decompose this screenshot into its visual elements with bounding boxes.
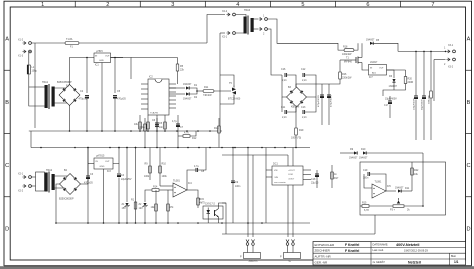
wire T1 drain up	[361, 43, 363, 53]
svg-text:1N4007: 1N4007	[183, 83, 192, 86]
svg-text:B: B	[467, 100, 471, 106]
svg-text:X3-2: X3-2	[448, 66, 454, 69]
capacitor C15 470uF/400V	[327, 95, 331, 98]
svg-text:12V: 12V	[139, 207, 144, 210]
wire C6	[156, 115, 158, 131]
wire rail down x416	[415, 51, 417, 96]
junction bus x135	[135, 147, 137, 149]
svg-text:4,7k: 4,7k	[184, 132, 189, 135]
svg-text:2,2n: 2,2n	[282, 116, 287, 119]
junction busC x199	[198, 147, 200, 149]
svg-text:100k: 100k	[162, 175, 168, 178]
svg-text:7: 7	[431, 2, 434, 8]
junction gnd rail x140	[139, 130, 141, 132]
svg-text:1N4007: 1N4007	[359, 157, 368, 160]
connector X6-1	[18, 173, 31, 179]
wire T1 source down	[362, 66, 369, 70]
capacitor C11 2.2n	[281, 106, 287, 119]
potentiometer P2	[240, 240, 261, 264]
op-amp IC4 TL081	[173, 180, 192, 198]
capacitor C4 2.2uF	[117, 174, 132, 181]
wire rail down x431	[430, 51, 432, 91]
IC2 left pin 3	[141, 93, 148, 95]
resistor R9 100k	[144, 163, 151, 179]
diode D9 1N4007	[349, 148, 358, 160]
junction P3 right	[422, 205, 424, 207]
capacitor C20 100uF/400V	[414, 96, 418, 99]
wire to R11	[197, 90, 203, 92]
long vertical TRA3 primary return	[219, 33, 221, 131]
svg-text:100k: 100k	[144, 175, 150, 178]
svg-text:LM317: LM317	[370, 61, 378, 64]
svg-text:GND: GND	[100, 166, 105, 168]
svg-text:2: 2	[106, 2, 109, 8]
junction gnd rail x210	[209, 130, 211, 132]
resistor R1 10k	[131, 199, 137, 210]
bridge rectifier B1 B250C850DP	[57, 81, 80, 106]
wire R2	[155, 190, 157, 223]
svg-text:OUT: OUT	[379, 68, 384, 70]
svg-text:Last mod.: Last mod.	[373, 248, 385, 252]
wire C5 bottom	[114, 99, 116, 132]
svg-text:1N4007: 1N4007	[366, 39, 375, 42]
svg-text:R10: R10	[162, 163, 167, 166]
svg-text:2,2n: 2,2n	[302, 116, 307, 119]
svg-text:C13: C13	[301, 106, 306, 109]
wire bus C from left	[31, 147, 310, 149]
junction bus x233	[232, 147, 234, 149]
svg-text:470µ/35: 470µ/35	[117, 98, 126, 101]
svg-text:COM: COM	[288, 174, 293, 176]
wire B3 right arm	[306, 88, 316, 97]
wire opto box link	[222, 203, 226, 234]
svg-text:VIN: VIN	[274, 170, 278, 172]
wire rail down x424	[423, 51, 425, 96]
svg-text:TL081: TL081	[173, 180, 180, 183]
connector X1-3	[18, 50, 31, 58]
svg-text:C16: C16	[281, 68, 286, 71]
wire B1 plus up to IC1	[70, 58, 95, 85]
wire z2 col	[126, 148, 128, 203]
wire triac bottom	[220, 97, 234, 105]
wire C18 col	[316, 170, 318, 188]
wire D10 right	[367, 152, 424, 154]
IC2 right pin 2	[169, 87, 176, 89]
wire opamp out	[187, 189, 196, 191]
diode D2 1N4007	[183, 92, 198, 100]
svg-text:470µ/35: 470µ/35	[84, 182, 93, 185]
wire C19 right	[370, 174, 386, 191]
junction rail x431	[430, 51, 432, 53]
IC2 left pin 5	[141, 103, 148, 105]
svg-text:R18: R18	[343, 45, 348, 48]
junction busC x75	[74, 147, 76, 149]
svg-text:X2-1: X2-1	[222, 36, 228, 39]
wire C17 down	[389, 105, 391, 113]
svg-text:3: 3	[171, 2, 174, 8]
wire Z2 down	[144, 207, 146, 223]
svg-text:TRA2: TRA2	[46, 169, 53, 172]
resistor R3 47k	[167, 204, 174, 211]
svg-text:4: 4	[236, 2, 239, 8]
svg-text:15µF/400V: 15µF/400V	[385, 98, 397, 101]
svg-text:45WV2.5: 45WV2.5	[249, 261, 259, 263]
svg-text:1N4007: 1N4007	[183, 98, 192, 101]
capacitor C18 22u/25	[311, 174, 319, 185]
wire fuse to TRA3 branch	[79, 42, 207, 44]
svg-text:X2-2: X2-2	[222, 10, 228, 13]
wire R17 col	[331, 165, 333, 188]
wire R19 bottom	[295, 135, 297, 148]
resistor R16 220k/2W	[339, 72, 352, 80]
svg-text:2,2n: 2,2n	[302, 79, 307, 82]
svg-text:100µF/400V: 100µF/400V	[414, 97, 416, 110]
wire lm317 to r20	[387, 69, 406, 71]
junction gnd rail x165	[164, 130, 166, 132]
junction busC x222	[221, 147, 223, 149]
resistor R18 100k/2W	[342, 45, 354, 56]
junction rail x416	[415, 51, 417, 53]
wire X2-2 to TRA3	[236, 15, 246, 17]
junction gnd2 x135.5	[135, 222, 137, 224]
ground rail section C	[56, 222, 310, 224]
svg-text:100µ: 100µ	[32, 70, 38, 73]
svg-text:X2-1: X2-1	[18, 173, 24, 176]
junction gnd2 x127	[126, 222, 128, 224]
svg-text:22µF/25V: 22µF/25V	[121, 178, 132, 181]
resistor R2 10k	[151, 204, 158, 211]
ground rail section B	[29, 130, 222, 132]
svg-text:240R: 240R	[408, 81, 414, 84]
junction busC x135.5	[135, 147, 137, 149]
svg-text:15V: 15V	[122, 207, 127, 210]
IC2 left pin 6	[141, 108, 148, 110]
wire opto emitter down	[218, 217, 220, 223]
svg-text:X1-2: X1-2	[18, 39, 24, 42]
IC2 right pin 6	[169, 103, 176, 105]
fuse F1 T1.8A	[65, 38, 79, 48]
svg-text:1N4007: 1N4007	[349, 157, 358, 160]
junction gnd2 x222	[221, 222, 223, 224]
wire TRA3 sec bot	[254, 28, 259, 30]
svg-text:R14: R14	[153, 186, 158, 189]
wire R14 left	[145, 190, 152, 202]
svg-text:C12: C12	[301, 68, 306, 71]
wire C2 top	[86, 58, 88, 94]
svg-text:100n: 100n	[235, 185, 241, 188]
svg-text:R12: R12	[192, 137, 197, 140]
wire into B3 top	[271, 60, 282, 75]
zener Z2 12V	[139, 203, 148, 210]
wire R5 top	[177, 58, 179, 65]
capacitor C19 100n	[363, 169, 370, 180]
wire R1 col	[135, 148, 137, 224]
wire R18 left	[335, 43, 344, 50]
svg-text:22µ/25: 22µ/25	[311, 182, 319, 185]
wire DC1 out com	[303, 174, 311, 176]
junction gnd rail x115	[114, 130, 116, 132]
junction diode join	[196, 90, 198, 92]
wire R8	[144, 118, 146, 148]
svg-text:400V-Netzteil: 400V-Netzteil	[396, 243, 419, 247]
wire C8 loop	[187, 170, 196, 190]
wire IC3 out	[113, 164, 119, 174]
op-amp IC5 TL081	[372, 181, 391, 199]
wire cap down x416	[415, 100, 417, 141]
capacitor C16 2.2n	[281, 68, 287, 82]
wire triac top	[220, 75, 234, 86]
wire TRA2 sec to B2 top	[54, 174, 71, 177]
svg-text:R17: R17	[334, 177, 339, 180]
svg-text:D11: D11	[405, 187, 410, 190]
potentiometer P3	[390, 198, 410, 212]
svg-text:B250C800DP: B250C800DP	[59, 198, 74, 201]
wire opamp plus in	[160, 185, 173, 187]
wire sec bot down	[268, 29, 272, 60]
OC1 led	[207, 208, 211, 218]
resistor R13	[214, 126, 220, 133]
wire C5 top	[114, 58, 116, 94]
wire R12 right	[190, 131, 196, 136]
wire TRA2 sec to B2 bot	[54, 188, 71, 195]
svg-text:C19: C19	[363, 169, 368, 172]
wire opamp out	[386, 190, 396, 192]
junction gnd rail x102	[101, 130, 103, 132]
junction gnd2 x88	[87, 222, 89, 224]
transformer TRA1	[42, 81, 55, 109]
junction gnd2 x168	[167, 222, 169, 224]
junction busC x178	[177, 147, 179, 149]
IC2 left pin 4	[141, 98, 148, 100]
wire y43 to TRA3 corner	[207, 15, 225, 44]
wire opto led bottom	[207, 218, 209, 224]
voltage regulator IC1 u7815	[94, 50, 111, 67]
capacitor C21 68uF/400V	[422, 96, 426, 99]
wire DC1 in top	[266, 169, 272, 171]
svg-text:68µF/400V: 68µF/400V	[422, 99, 424, 110]
svg-text:IC1: IC1	[95, 64, 99, 67]
svg-text:IC7: IC7	[369, 76, 373, 79]
wire C12 right	[305, 75, 316, 88]
zener D3 ZPD15	[122, 203, 130, 210]
capacitor C9 100n	[231, 181, 241, 188]
wire D11 right	[402, 190, 413, 192]
vertical pot wire 4	[292, 148, 294, 238]
svg-text:TCA785: TCA785	[150, 112, 159, 115]
svg-text:zu GERÄT: zu GERÄT	[373, 260, 386, 264]
junction gnd2 x103.5	[103, 222, 105, 224]
wire R13	[218, 118, 220, 148]
capacitor C5 470u/35	[113, 90, 126, 101]
svg-text:A: A	[5, 37, 9, 43]
junction gnd2 x248	[247, 222, 249, 224]
svg-text:scan converter: scan converter	[274, 181, 286, 184]
svg-text:D: D	[466, 226, 470, 232]
connector X4-2	[259, 27, 268, 35]
svg-text:470µF/400V: 470µF/400V	[331, 94, 333, 107]
wire R4	[139, 115, 141, 131]
junction B1-IC1-C2	[86, 57, 88, 59]
junction gnd rail x198	[197, 130, 199, 132]
junction bus x119	[118, 147, 120, 149]
wire TRA1 sec2 to B1	[54, 103, 70, 106]
svg-text:R13: R13	[214, 127, 219, 130]
svg-text:ENTWICKLER: ENTWICKLER	[315, 243, 336, 247]
junction gnd rail x69.5	[69, 130, 71, 132]
potentiometer P1	[280, 240, 301, 264]
svg-text:IC5: IC5	[387, 185, 391, 188]
svg-text:µ7815: µ7815	[96, 50, 103, 53]
wire D9 rail	[340, 152, 354, 154]
IC2 right pin 3	[169, 91, 176, 93]
wire C9	[232, 148, 234, 224]
diode D1 1N4007	[183, 83, 198, 90]
wire cap down x424	[423, 100, 425, 141]
resistor R5 22k	[176, 64, 184, 72]
junction busC x262	[261, 147, 263, 149]
wire R16 up	[339, 60, 341, 72]
svg-text:IRF840: IRF840	[344, 61, 353, 64]
connector X3-2	[444, 58, 455, 69]
wire R11 to triac gate	[214, 90, 231, 92]
resistor R12 4.7k	[183, 132, 197, 141]
capacitor C12 2.2n	[301, 68, 307, 82]
wire C4 down	[118, 178, 120, 224]
connector X3-1	[444, 44, 455, 53]
wire out extends	[111, 57, 124, 59]
svg-text:R22: R22	[414, 169, 419, 172]
capacitor C13 2.2n	[301, 106, 307, 119]
wire TRA3 sec top	[254, 18, 259, 20]
IC2 right pin 4	[169, 95, 176, 97]
wire R7	[164, 115, 166, 131]
bridge rectifier B3 KBU8M	[287, 86, 307, 109]
wire C8 right	[198, 148, 206, 171]
wire R18 right	[354, 43, 358, 50]
capacitor C17 15uF/400V	[384, 101, 392, 107]
svg-text:B: B	[5, 100, 9, 106]
junction busC x145	[144, 147, 146, 149]
svg-text:X1-3: X1-3	[18, 55, 24, 58]
wire IC3 in	[88, 163, 94, 165]
bottom rail right section	[389, 112, 391, 118]
HV rail right	[398, 50, 446, 52]
horizontal mid link2	[253, 154, 288, 156]
svg-text:µA7815: µA7815	[96, 155, 105, 158]
svg-text:1N4007: 1N4007	[395, 187, 404, 190]
wire z2 down	[126, 207, 128, 223]
wire TRA3 prim bottom	[236, 32, 246, 34]
wire C11 left	[281, 97, 283, 112]
svg-text:ZEICHNER: ZEICHNER	[315, 249, 331, 253]
wire V+ rail over TCA	[131, 57, 178, 59]
svg-text:P3 +: P3 +	[390, 209, 396, 212]
wire X1-3 down	[29, 52, 32, 66]
opamp box outline	[360, 162, 446, 215]
wire R20 up	[405, 70, 407, 77]
bus C left drop	[30, 131, 32, 148]
resistor R20 240R	[404, 77, 413, 85]
wire B3 bottom down	[295, 107, 297, 128]
wire C19 loop	[364, 174, 372, 188]
junction gnd rail x131	[130, 130, 132, 132]
junction gnd2 x178	[177, 222, 179, 224]
capacitor C8 4.7u	[194, 165, 205, 173]
diode D10 1N4007	[359, 148, 368, 160]
svg-text:IC4: IC4	[188, 182, 192, 185]
svg-text:KBU8M: KBU8M	[291, 106, 299, 109]
svg-text:AUFTR.-NR: AUFTR.-NR	[315, 254, 332, 258]
wire R20 down	[394, 84, 406, 91]
wire R6	[147, 115, 149, 131]
wire IC3 in from bus	[87, 148, 89, 177]
svg-text:F Kneifel: F Kneifel	[345, 249, 359, 253]
wire B3 left arm	[282, 75, 287, 97]
wire P3 right	[404, 205, 423, 207]
junction gnd2 x56	[55, 222, 57, 224]
svg-text:X2-2: X2-2	[18, 190, 24, 193]
triac T5 BTIC26-600	[228, 82, 241, 101]
svg-text:OUT: OUT	[105, 56, 110, 58]
resistor R15	[197, 198, 206, 205]
wire box down left	[374, 215, 376, 234]
wire X3-2 rail	[434, 59, 446, 61]
bridge rectifier B2 B250C800DP	[59, 169, 81, 201]
svg-text:F Kneifel: F Kneifel	[345, 243, 359, 247]
svg-text:C: C	[466, 163, 470, 169]
svg-text:ADJ: ADJ	[372, 72, 376, 75]
wire box vert right	[422, 153, 424, 206]
diode D11 1N4007	[395, 187, 410, 193]
svg-text:5: 5	[301, 2, 304, 8]
TRA2 primary box	[36, 172, 45, 191]
junction busC x41	[40, 147, 42, 149]
capacitor C3 470u/35	[84, 173, 94, 185]
wire caps top join	[322, 79, 340, 84]
svg-text:X3-1: X3-1	[448, 44, 454, 47]
wire C2 bottom	[86, 99, 88, 132]
wire to T1	[340, 59, 351, 61]
svg-text:IC2: IC2	[149, 76, 153, 79]
wire DC1 out top	[303, 169, 311, 171]
svg-text:GER.-NR: GER.-NR	[315, 260, 329, 264]
wire adj join	[383, 90, 394, 96]
junction gnd rail x177	[176, 130, 178, 132]
wire IC1 out right	[111, 58, 132, 80]
IC2 notch	[155, 79, 162, 83]
vertical pot wire 2	[252, 155, 254, 237]
svg-text:4,7µ: 4,7µ	[172, 120, 177, 123]
junction gnd rail x148	[147, 130, 149, 132]
svg-text:CNY17-2: CNY17-2	[205, 203, 216, 206]
wire D6 down	[393, 83, 395, 91]
resistor R7	[164, 122, 167, 129]
junction busC x88	[87, 147, 89, 149]
wire X6-2 to TRA2	[32, 185, 36, 187]
svg-text:R15: R15	[362, 202, 367, 205]
wire opto collector up	[219, 203, 227, 209]
junction gnd2 x262	[261, 222, 263, 224]
wire C7	[177, 115, 179, 148]
voltage regulator IC3 uA7815	[94, 155, 113, 174]
resistor R6	[147, 122, 150, 129]
resistor R11 fuse-style	[203, 86, 214, 97]
horizontal mid link	[222, 154, 253, 156]
wire LM317 out	[387, 70, 395, 78]
wire R22 col	[411, 162, 413, 191]
wire X6-1 to TRA2	[32, 176, 36, 178]
svg-text:-VOUT: -VOUT	[288, 179, 295, 181]
